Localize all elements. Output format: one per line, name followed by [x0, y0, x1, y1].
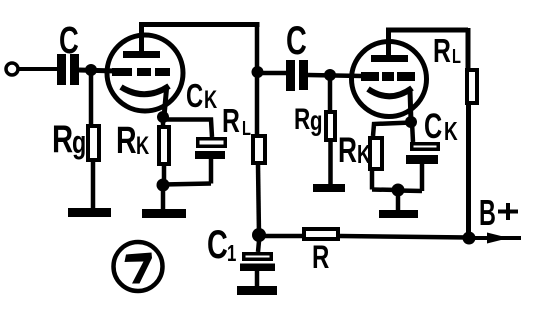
- svg-text:R: R: [312, 239, 329, 275]
- svg-text:R: R: [116, 120, 137, 162]
- svg-text:L: L: [452, 45, 461, 68]
- svg-text:C: C: [424, 107, 442, 146]
- svg-text:K: K: [204, 85, 217, 114]
- svg-text:C: C: [186, 78, 203, 115]
- svg-text:R: R: [222, 104, 240, 140]
- svg-text:K: K: [136, 131, 149, 160]
- svg-text:R: R: [338, 130, 357, 170]
- svg-text:R: R: [294, 102, 310, 136]
- svg-text:K: K: [444, 116, 458, 146]
- svg-text:R: R: [433, 34, 451, 70]
- svg-text:L: L: [242, 117, 251, 140]
- svg-text:g: g: [72, 124, 86, 159]
- svg-text:C: C: [59, 20, 79, 62]
- svg-text:R: R: [52, 118, 73, 161]
- svg-text:C: C: [286, 18, 307, 63]
- svg-text:K: K: [357, 139, 371, 169]
- svg-text:C: C: [207, 222, 228, 267]
- svg-text:B: B: [479, 194, 496, 233]
- svg-text:1: 1: [227, 242, 236, 267]
- svg-text:g: g: [310, 106, 322, 137]
